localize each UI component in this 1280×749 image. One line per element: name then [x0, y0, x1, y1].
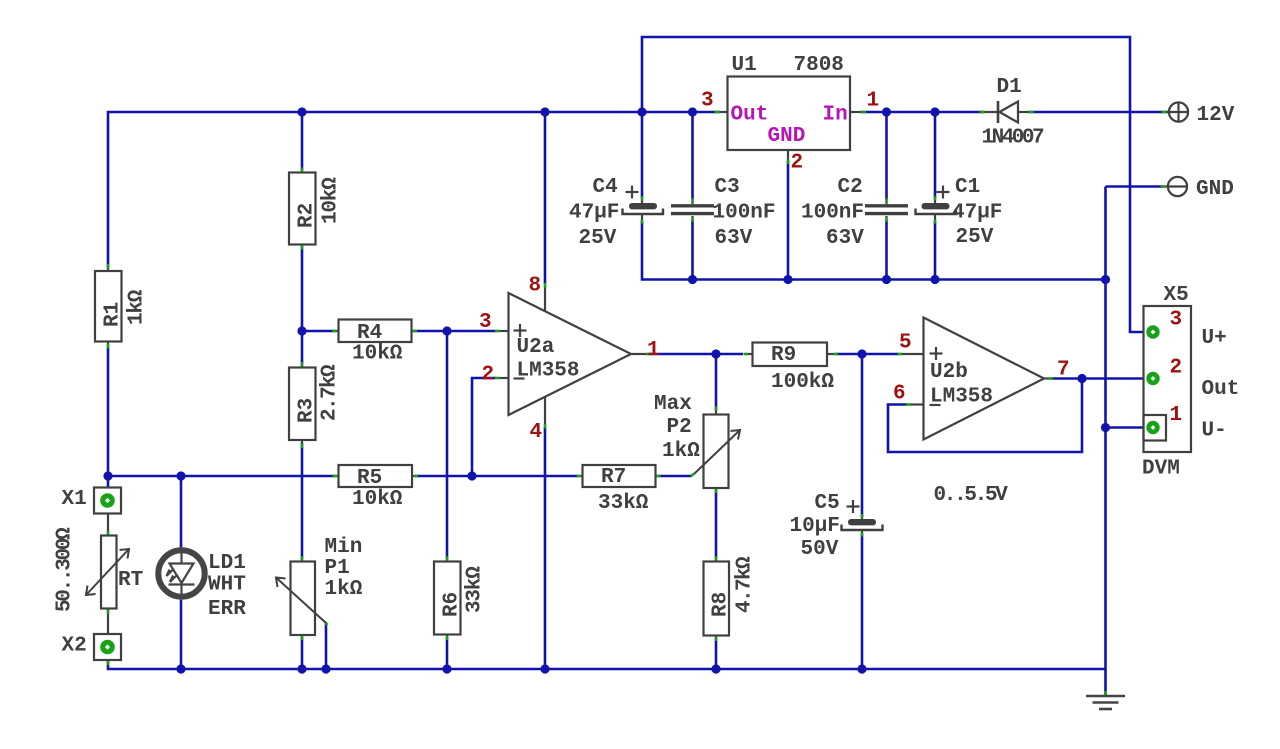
- pad X1 green diamond: [100, 493, 115, 508]
- pad X5 pin1 green diamond: [1146, 421, 1159, 434]
- svg-text:100nF: 100nF: [801, 202, 864, 225]
- capacitor C2 plates: [865, 206, 908, 214]
- wire stub U2b pin5: [901, 353, 924, 355]
- svg-text:3: 3: [479, 311, 492, 334]
- tick P2 wiper: [691, 474, 695, 476]
- wire stub R6 top: [446, 556, 448, 562]
- wire stub X1 to RT: [107, 511, 109, 536]
- opamp U2a plus sign: [514, 324, 527, 337]
- svg-text:2: 2: [1170, 357, 1183, 380]
- component bodies: [94, 77, 1191, 661]
- svg-text:LM358: LM358: [930, 386, 993, 409]
- wire stub C5 bottom: [861, 530, 863, 536]
- junction R2 top at +V row: [297, 107, 306, 116]
- wire C1 column lower: [934, 221, 937, 280]
- wire stub D1 left: [979, 111, 998, 113]
- wire stub GND terminal: [1160, 185, 1168, 187]
- svg-text:63V: 63V: [715, 227, 753, 250]
- wire stub C2 bottom: [885, 216, 887, 222]
- tick C3 top: [691, 199, 694, 203]
- svg-text:X5: X5: [1164, 284, 1189, 307]
- diode D1 body triangle: [1000, 102, 1019, 123]
- resistor R8: [704, 562, 730, 636]
- tick pin4: [544, 424, 547, 429]
- tick R9 right: [834, 353, 839, 356]
- tick P2 bottom: [715, 489, 718, 493]
- wire LED column top: [180, 476, 183, 549]
- wire pin2 net: [472, 378, 496, 476]
- junction pin2 column at row D: [467, 471, 476, 480]
- svg-text:C4: C4: [593, 176, 618, 199]
- svg-text:1kΩ: 1kΩ: [126, 289, 149, 325]
- wire stub U2b output: [1044, 377, 1053, 379]
- wire stub C3 bottom: [691, 216, 693, 222]
- svg-text:2: 2: [791, 152, 804, 175]
- tick LED bottom: [180, 596, 183, 600]
- wire D1 to 12V terminal: [1030, 111, 1168, 114]
- wire U1 GND pin down: [787, 161, 790, 280]
- wire stub R8 bottom: [715, 636, 717, 641]
- tick C2 bottom: [885, 218, 888, 222]
- wire stub R5 right: [412, 475, 418, 477]
- wire stub opamp pin8: [544, 286, 546, 311]
- tick U2b pin5: [898, 353, 903, 356]
- wire LED column bottom: [180, 598, 183, 669]
- capacitor C1 plates (electrolytic): [916, 203, 957, 214]
- svg-text:U-: U-: [1202, 420, 1227, 443]
- tick D1 left: [980, 111, 985, 114]
- svg-text:U2a: U2a: [517, 336, 555, 359]
- resistor R4: [339, 320, 412, 343]
- tick P1 wiper: [325, 622, 328, 625]
- wire P1 bottom to bottom rail: [301, 637, 304, 669]
- resistor R3: [289, 368, 316, 441]
- svg-text:100kΩ: 100kΩ: [771, 371, 834, 394]
- IC U1 7808 box: [728, 77, 851, 151]
- capacitor C4 plates (electrolytic): [623, 203, 664, 214]
- wire R6 bottom to rail: [446, 637, 449, 669]
- wire GND column down to ground symbol: [1104, 187, 1107, 696]
- svg-text:12V: 12V: [1197, 104, 1235, 127]
- wire stub C1 top: [934, 196, 936, 203]
- wire stub R2 bottom: [301, 245, 303, 250]
- svg-text:RT: RT: [118, 569, 143, 592]
- svg-text:C5: C5: [815, 492, 840, 515]
- svg-text:33kΩ: 33kΩ: [464, 566, 487, 613]
- svg-text:5: 5: [899, 332, 912, 355]
- svg-text:P1: P1: [325, 557, 350, 580]
- connector X5 pin1 inner box: [1144, 415, 1167, 441]
- tick C4 bottom: [641, 220, 644, 224]
- opamp U2b plus sign: [930, 347, 943, 360]
- svg-text:GND: GND: [1196, 178, 1234, 201]
- svg-text:50V: 50V: [801, 538, 839, 561]
- wire C1 column upper: [934, 112, 937, 198]
- svg-text:1: 1: [647, 339, 660, 362]
- tick R2 bottom: [301, 246, 304, 250]
- svg-text:U1: U1: [732, 54, 757, 77]
- svg-text:1kΩ: 1kΩ: [662, 440, 700, 463]
- pad X5 pin3 green diamond: [1146, 325, 1159, 338]
- tick C4 top: [641, 197, 644, 201]
- tick R3 bottom: [301, 444, 304, 448]
- wire stub C2 top: [885, 198, 887, 204]
- svg-text:10kΩ: 10kΩ: [320, 177, 343, 224]
- connector X5 box: [1144, 306, 1192, 452]
- tick C1 top: [934, 197, 937, 201]
- junction R6 at bottom rail: [442, 664, 451, 673]
- wire stub R9 left: [745, 353, 753, 355]
- svg-text:U2b: U2b: [930, 361, 968, 384]
- tick R3 top: [301, 362, 304, 366]
- tick X1 top: [107, 490, 110, 494]
- junction P2 top at output row: [711, 349, 720, 358]
- wire stub R8 top: [715, 556, 717, 562]
- svg-text:LD1: LD1: [208, 552, 246, 575]
- tick pin3: [495, 330, 500, 333]
- wire pin8 column: [544, 112, 547, 284]
- red pin numbers: [479, 90, 1182, 445]
- potentiometer P2 wiper arrow: [694, 430, 740, 474]
- junction C3 column at +V row: [688, 107, 697, 116]
- wire stub R7 left: [576, 475, 583, 477]
- svg-text:8: 8: [529, 275, 542, 298]
- wire R2 bottom to R3 top: [301, 247, 304, 365]
- wire C2 column lower: [885, 220, 888, 280]
- svg-text:25V: 25V: [579, 227, 617, 250]
- svg-text:1: 1: [1170, 404, 1183, 427]
- svg-text:R3: R3: [296, 398, 319, 423]
- svg-text:X1: X1: [62, 488, 87, 511]
- svg-text:1kΩ: 1kΩ: [325, 578, 363, 601]
- tick C2 top: [885, 199, 888, 203]
- wire stub R2 top: [301, 168, 303, 173]
- wire stub opamp pin2: [499, 377, 509, 379]
- wire stub R1 top: [107, 266, 109, 271]
- 12V power terminal symbol: [1169, 102, 1188, 121]
- svg-text:1: 1: [867, 90, 880, 113]
- wire stub R6 bottom: [446, 635, 448, 641]
- wire R4 junction down to R6: [446, 331, 449, 559]
- wire C4 column lower + cap ground rail: [642, 221, 1106, 280]
- junction C3 at cap ground rail: [688, 275, 697, 284]
- op-amp U2b triangle: [924, 318, 1045, 440]
- svg-text:C1: C1: [955, 176, 980, 199]
- svg-text:47µF: 47µF: [952, 202, 1002, 225]
- wire stub 12V terminal: [1161, 111, 1169, 113]
- junction pin4 column at bottom rail: [540, 664, 549, 673]
- svg-text:25V: 25V: [956, 226, 994, 249]
- junction LED top at row D: [176, 471, 185, 480]
- svg-text:In: In: [823, 104, 848, 127]
- svg-text:4.7kΩ: 4.7kΩ: [734, 556, 757, 613]
- svg-text:1N4007: 1N4007: [982, 127, 1045, 150]
- svg-text:R2: R2: [296, 203, 319, 228]
- tick P1 top: [301, 557, 304, 561]
- opamp U2b minus sign: [930, 404, 941, 406]
- svg-text:R8: R8: [710, 592, 733, 617]
- tick R6 top: [446, 557, 449, 561]
- junction LED at bottom rail: [176, 664, 185, 673]
- wire R2 top: [301, 112, 304, 170]
- resistor R5: [339, 465, 413, 487]
- tick LED top: [180, 547, 183, 551]
- tick C5 bottom: [861, 533, 864, 537]
- junction GND column to X5 pin1: [1101, 423, 1110, 432]
- svg-text:Min: Min: [325, 536, 363, 559]
- GND terminal symbol: [1168, 177, 1187, 196]
- wire main +V row y=112 left part: [108, 112, 719, 268]
- wire stub U1 Out pin: [714, 111, 728, 113]
- svg-text:7: 7: [1057, 359, 1070, 382]
- wire R4 right to opamp pin3: [414, 330, 496, 333]
- wire X2 to bottom rail corner: [108, 661, 1106, 669]
- svg-text:4: 4: [530, 421, 543, 444]
- capacitor C3 plates: [671, 206, 714, 214]
- terminal pad X1 box: [94, 488, 121, 514]
- potentiometer P1 body: [291, 562, 316, 636]
- resistor R7: [583, 465, 656, 487]
- tick U2b out: [1049, 377, 1054, 380]
- potentiometer P1 wiper arrow: [276, 578, 326, 624]
- svg-text:C3: C3: [715, 176, 740, 199]
- wire stub D1 right: [1018, 111, 1033, 113]
- tick pin8: [544, 283, 547, 288]
- wire C5 column top: [861, 354, 864, 517]
- tick pin2: [495, 377, 500, 380]
- svg-text:ERR: ERR: [208, 598, 246, 621]
- wire P2 bottom to R8 top: [715, 490, 718, 559]
- tick C5 top: [861, 514, 864, 518]
- tick GND terminal: [1161, 185, 1166, 188]
- svg-text:10kΩ: 10kΩ: [352, 488, 403, 511]
- wire pin4 column: [544, 427, 547, 669]
- tick U2a out: [647, 353, 652, 356]
- tick D1 right: [1029, 111, 1034, 114]
- junction C5 at bottom rail: [857, 664, 866, 673]
- wire stub opamp pin4: [544, 397, 546, 424]
- svg-text:R1: R1: [102, 302, 125, 327]
- resistor R9: [753, 343, 828, 367]
- junction P1 wiper at bottom rail: [321, 664, 330, 673]
- wire stub R9 right: [827, 353, 838, 355]
- capacitor C1 plus sign: [937, 186, 950, 199]
- wire stub RT to X2: [107, 608, 109, 636]
- svg-text:2.7kΩ: 2.7kΩ: [319, 364, 342, 421]
- junction C4 column at +V row: [637, 107, 646, 116]
- tick R1 bottom: [107, 344, 110, 349]
- svg-text:33kΩ: 33kΩ: [598, 492, 649, 515]
- svg-text:R6: R6: [441, 592, 464, 617]
- wire C3 column upper: [691, 112, 694, 200]
- wire stub R4 right: [411, 330, 417, 332]
- svg-text:WHT: WHT: [208, 574, 246, 597]
- wire row D (R5 row) left: [108, 475, 334, 478]
- svg-text:47µF: 47µF: [569, 202, 619, 225]
- wire R9 right to pin5: [836, 353, 899, 356]
- wire R1 bottom to row D: [107, 345, 110, 493]
- tick R7 left: [577, 475, 581, 478]
- svg-text:DVM: DVM: [1142, 458, 1180, 481]
- wire top rail from C4/Out column up over U1 to X5 pin3 column: [642, 37, 1146, 332]
- tick R5 left: [333, 475, 337, 478]
- tick 12V: [1162, 111, 1167, 114]
- capacitor C5 plates (electrolytic): [842, 519, 883, 530]
- wire stub U1 In pin: [850, 111, 866, 113]
- wire row D middle (R5 right to R7 left): [415, 475, 579, 478]
- junction C2 column at +V row: [882, 107, 891, 116]
- tick RT top: [107, 531, 110, 536]
- svg-text:63V: 63V: [826, 227, 864, 250]
- wire stub U2a output: [631, 353, 651, 355]
- wire stub C5 top: [861, 515, 863, 520]
- terminal pad X2 box: [94, 634, 121, 660]
- svg-text:D1: D1: [997, 76, 1022, 99]
- wire R4 row pin3 net: [302, 330, 335, 333]
- gray pin stubs: [108, 112, 1169, 663]
- svg-text:P2: P2: [667, 416, 692, 439]
- svg-text:7808: 7808: [794, 54, 844, 77]
- svg-text:0..5.5V: 0..5.5V: [934, 484, 1009, 507]
- junction pin8 column at +V row: [540, 107, 549, 116]
- wire stub P1 top: [301, 556, 303, 562]
- magenta U1 pin names: [731, 104, 848, 149]
- tick RT bottom: [107, 609, 110, 614]
- tick R7 right: [657, 475, 661, 478]
- opamp U2a minus sign: [514, 377, 525, 379]
- tick R9 left: [744, 353, 749, 356]
- wire U2a output row: [649, 353, 743, 356]
- wire R7 right to P2 wiper: [658, 475, 692, 478]
- junction C1 column at +V row: [930, 107, 939, 116]
- wire In pin to D1: [861, 111, 983, 114]
- tick U2b pin6: [906, 403, 911, 406]
- svg-text:50..300Ω: 50..300Ω: [54, 527, 77, 612]
- svg-text:R7: R7: [601, 466, 626, 489]
- tick P2 top: [715, 407, 718, 411]
- svg-text:GND: GND: [768, 125, 806, 148]
- wire R3 bottom to P1 top: [301, 443, 304, 559]
- wire stub P2 top: [715, 408, 717, 415]
- capacitor C5 plus sign: [847, 500, 860, 513]
- wire stub U1 GND pin: [787, 150, 789, 163]
- tick R8 top: [715, 557, 718, 561]
- potentiometer P2 body: [704, 415, 729, 489]
- wire P2 column top: [715, 354, 718, 410]
- resistor R1: [95, 271, 122, 342]
- wire R8 bottom to rail: [715, 638, 718, 669]
- trimmer RT body: [101, 536, 117, 609]
- junction C2 at cap ground rail: [882, 275, 891, 284]
- svg-text:R9: R9: [771, 344, 796, 367]
- junction R4 right node: [442, 326, 451, 335]
- tick U1 In: [862, 111, 867, 114]
- wire P1 wiper to bottom rail: [325, 624, 328, 669]
- tick R1 top: [107, 264, 110, 269]
- wire stub R3 top: [301, 362, 303, 368]
- junction C1 at cap ground rail: [930, 275, 939, 284]
- wire stub P1 bottom: [301, 635, 303, 640]
- wire stub C4 top: [641, 196, 643, 203]
- capacitor C4 plus sign: [626, 186, 639, 199]
- trimmer RT double arrow: [86, 549, 129, 595]
- svg-text:10µF: 10µF: [790, 515, 840, 538]
- wire stub opamp pin3: [499, 330, 509, 332]
- tick ground symbol: [1104, 691, 1107, 695]
- svg-text:3: 3: [701, 90, 714, 113]
- wire U2b feedback loop pin6: [888, 379, 1082, 453]
- op-amp U2a triangle: [509, 293, 632, 415]
- tick C1 bottom: [934, 220, 937, 224]
- junction U1 GND at cap ground rail: [783, 275, 792, 284]
- svg-text:X2: X2: [62, 635, 87, 658]
- wire stub R4 left: [332, 330, 339, 332]
- svg-text:C2: C2: [838, 176, 863, 199]
- tick U1 Out: [715, 111, 720, 114]
- tick P1 bottom: [301, 636, 304, 640]
- wire stub C4 bottom: [641, 215, 643, 223]
- svg-text:2: 2: [482, 364, 495, 387]
- LED LD1: [158, 550, 204, 597]
- resistor R2: [289, 173, 316, 245]
- green connection ticks: [108, 112, 1167, 695]
- svg-text:10kΩ: 10kΩ: [352, 343, 403, 366]
- svg-text:Max: Max: [654, 393, 692, 416]
- junction C5 top at output row: [857, 349, 866, 358]
- tick R6 bottom: [446, 636, 449, 640]
- tick R4 right: [413, 330, 417, 333]
- diode D1 cathode bar: [997, 101, 1000, 123]
- ground symbol: [1086, 696, 1125, 709]
- wire GND column to X5 pin1: [1106, 426, 1147, 429]
- tick R8 bottom: [715, 637, 718, 641]
- wire stub C3 top: [691, 198, 693, 204]
- svg-text:LM358: LM358: [517, 360, 580, 383]
- wire C2 column upper: [885, 112, 888, 200]
- junction R8 at bottom rail: [711, 664, 720, 673]
- pad X5 pin2 green diamond: [1146, 372, 1159, 385]
- tick U1 GND: [787, 160, 790, 165]
- junction P1 at bottom rail: [297, 664, 306, 673]
- svg-text:Out: Out: [731, 104, 769, 127]
- wire stub R3 bottom: [301, 440, 303, 446]
- resistor R6: [434, 562, 461, 635]
- wire stub R1 bottom: [107, 342, 109, 348]
- svg-text:U+: U+: [1202, 327, 1227, 350]
- wire C3 column lower: [691, 220, 694, 280]
- junction U2b output feedback tap: [1077, 374, 1086, 383]
- junction R1/X1 at row D: [103, 471, 112, 480]
- wire stub P2 bottom: [715, 488, 717, 492]
- svg-text:6: 6: [893, 383, 906, 406]
- wire stub U2b pin6: [910, 403, 924, 405]
- tick X2 bottom: [107, 661, 110, 665]
- svg-text:Out: Out: [1202, 378, 1240, 401]
- svg-text:R5: R5: [357, 467, 382, 490]
- junction R2/R3/R4 node: [297, 326, 306, 335]
- tick R5 right: [414, 475, 418, 478]
- tick R4 left: [333, 330, 337, 333]
- wire C5 column bottom: [861, 534, 864, 669]
- wire stub C1 bottom: [934, 215, 936, 223]
- tick R2 top: [301, 168, 304, 172]
- svg-text:100nF: 100nF: [713, 202, 776, 225]
- wire C4 column upper: [641, 112, 644, 198]
- wire stub R5 left: [332, 475, 339, 477]
- wire stub R7 right: [655, 475, 661, 477]
- svg-text:3: 3: [1170, 309, 1183, 332]
- wire GND terminal to GND column: [1106, 185, 1164, 188]
